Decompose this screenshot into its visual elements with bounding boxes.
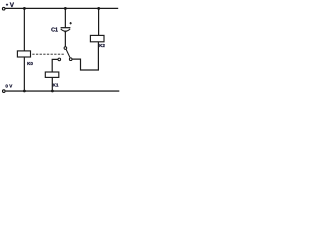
switch left throw contact — [58, 58, 61, 61]
terminal +V — [2, 7, 5, 10]
node junction bottom K0 — [23, 90, 26, 93]
switch arm — [66, 50, 70, 58]
wire bottom rail — [6, 90, 120, 92]
capacitor C1 bottom plate — [61, 29, 70, 31]
label + of +V — [6, 4, 8, 6]
wire K1 bottom lead — [51, 77, 53, 91]
svg-text:0 V: 0 V — [5, 84, 13, 89]
terminal 0V — [3, 90, 6, 93]
switch right throw contact — [69, 58, 72, 61]
wire C1 bottom lead — [64, 31, 66, 47]
node junction top C1 — [64, 7, 67, 10]
dashed linkage from K0 — [32, 53, 65, 55]
wire left contact to K1 — [52, 59, 58, 72]
svg-text:K2: K2 — [99, 43, 105, 48]
wire K2 top lead — [98, 8, 100, 36]
svg-text:C1: C1 — [51, 28, 58, 34]
wire right contact to K2 — [72, 42, 98, 70]
relay coil K2 — [90, 35, 104, 41]
relay coil K0 — [17, 51, 30, 57]
background — [0, 0, 120, 99]
wire C1 top lead — [64, 8, 66, 27]
switch pole contact — [64, 47, 67, 50]
wire top rail — [5, 7, 118, 9]
wire K0 bottom lead — [23, 57, 25, 91]
capacitor C1 top plate — [61, 27, 71, 29]
node junction top K0 — [23, 7, 26, 10]
node junction bottom K1 — [51, 90, 54, 93]
svg-text:K1: K1 — [53, 83, 59, 88]
relay coil K1 — [45, 72, 59, 77]
svg-text:K0: K0 — [27, 61, 33, 66]
node junction top K2 — [97, 7, 100, 10]
plus sign of capacitor C1 — [70, 22, 72, 24]
wire K0 top lead — [23, 8, 25, 51]
